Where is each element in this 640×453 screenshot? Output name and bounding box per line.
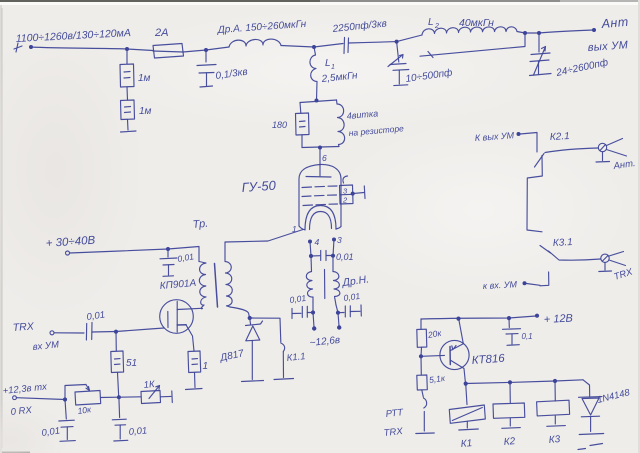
wire fuse to node B [183,50,206,52]
svg-text:3: 3 [337,235,342,245]
svg-text:1м: 1м [139,106,152,117]
capacitor C 0,01 across filament [309,251,354,263]
connector Ant [596,139,636,173]
switch PTT [383,390,434,439]
grid pin mark C [343,176,348,183]
capacitor C 0,01 bias mid [112,397,147,441]
transistor KT816 [440,319,506,384]
capacitor C 2250pF/3kV [331,17,387,53]
svg-text:Ант: Ант [600,15,629,31]
svg-text:К3.1: К3.1 [553,237,573,249]
node Q junction [507,316,511,320]
node H junction [318,146,322,150]
wire node B to choke [206,47,229,50]
wire to R1 [126,49,128,64]
node A junction [125,47,129,51]
wire HV to fuse [31,47,127,49]
rotor wire of C1 [420,33,525,58]
svg-text:0,01: 0,01 [336,252,354,262]
variable capacitor C2 24-2600pF [530,33,610,79]
wire to K2.1 [520,133,537,153]
relay coil K1 [449,384,485,450]
svg-text:1: 1 [331,64,335,71]
choke Dr.A anode [216,19,307,47]
drain lead [177,308,201,309]
+12V bus wire [421,316,536,319]
node D junction [395,40,399,44]
svg-text:К2.1: К2.1 [550,131,570,143]
source lead [177,324,186,326]
base bar [449,347,451,365]
svg-text:КТ816: КТ816 [471,353,505,367]
terminal +12V [535,314,539,318]
resistor R 1M upper [120,64,151,87]
relay coil K3 [537,381,570,446]
resistor R 1 source [186,351,209,390]
svg-text:К2: К2 [503,436,516,448]
tube grid dashes row3 [303,204,338,206]
MOSFET KP901A [116,300,202,351]
transformer primary winding [199,262,206,309]
wire bias to node N [17,398,66,400]
svg-text:К1: К1 [460,438,472,450]
node grid junction [351,192,355,196]
wire +30V to node J [70,249,169,253]
tube anode plate [306,166,331,177]
wire R20k to base node [420,347,423,356]
capacitor C 0,01 bias left [41,400,75,442]
wire node F to antenna output [539,30,593,33]
wire node J to transformer primary [168,247,199,262]
grid pin boxes 3 and 2 [340,185,354,205]
wire to anode pin 6 [319,148,321,167]
node R junction [464,382,468,386]
pin 4 node [308,240,312,244]
capacitor C 0,01 input [86,310,106,340]
terminal k vkh UM [523,281,527,285]
svg-text:2А: 2А [154,27,168,39]
wire junction A to fuse [127,49,153,51]
node E junction [523,31,527,35]
fixed contact bracket k vkh UM [540,272,549,286]
common wire K2.1 to K3.1 [527,156,542,232]
suppressor left lead [299,103,302,114]
svg-text:40мкГн: 40мкГн [459,17,494,29]
resistor R 1M lower [121,100,152,120]
svg-text:+ 12В: + 12В [544,312,574,326]
resistor R 5,1k [417,356,447,390]
inductor L2 [422,17,525,35]
node K junction [248,316,252,320]
transformer secondary winding [225,242,232,307]
filament left wire [310,242,312,272]
capacitor C 0,1 12V bypass [503,318,533,345]
svg-text:РТТ: РТТ [385,407,405,420]
inductor L1 [310,47,359,100]
ground [121,131,137,132]
svg-text:4: 4 [315,237,320,247]
node G junction [315,99,319,103]
wire grid to bypass bar [353,193,364,194]
resistor R 51 [111,332,137,373]
svg-text:к вх. УМ: к вх. УМ [483,279,518,291]
svg-text:L: L [325,58,331,69]
relay coil K2 [493,382,525,448]
relay contact K2.1 blade [535,154,545,168]
svg-text:К1.1: К1.1 [286,351,306,364]
gate bar [167,312,169,328]
wire C2250 to node D [349,42,397,43]
svg-text:ТRX: ТRX [383,426,404,439]
wire blade to antenna connector [545,148,598,153]
wire bus to R20k [420,319,422,329]
wire blade to TRX connector [549,251,601,260]
svg-text:1: 1 [203,361,209,372]
node HV+ terminal [14,43,22,52]
diode 1N4148 [579,380,632,435]
svg-text:0 RX: 0 RX [10,405,33,418]
svg-text:2: 2 [434,23,439,30]
svg-text:К3: К3 [548,434,561,446]
wire between resistors [126,87,129,100]
wire input to C0,01 [54,332,84,334]
transformer core [215,264,218,308]
wire base node to transistor [421,354,445,357]
terminal K vykh UM [517,132,521,136]
capacitor C 0,01 supply bypass [160,249,195,276]
terminal TRX input [50,331,54,335]
node J junction [166,247,170,251]
wire C to node L [92,331,116,334]
capacitor C 0,01 filament right [338,291,361,317]
resistor R 20k base [417,328,443,348]
svg-text:ТRX: ТRX [12,320,35,334]
node L junction [114,330,118,334]
capacitor C 0,1/3kV [197,50,248,87]
wire node E to node F [525,32,539,34]
svg-text:2: 2 [342,196,348,205]
wire pin1 to transformer secondary [226,230,304,243]
node B junction [204,48,208,52]
node C junction [312,45,316,49]
terminal fil right [337,325,341,329]
svg-text:180: 180 [272,120,287,130]
parasitic suppressor loop top wire [300,100,337,103]
tube GU-50 envelope [299,164,341,230]
channel bar [176,302,178,333]
node M junction [117,395,121,399]
relay contact K1.1 [252,318,307,380]
grid bypass bar [363,186,366,199]
terminal +30V [66,251,70,255]
svg-text:51: 51 [126,358,137,369]
connector TRX [599,252,635,283]
tube grid dashes row2 [302,195,337,197]
svg-text:6: 6 [322,153,327,163]
node P junction [456,317,460,321]
node S junction [508,380,512,384]
resistor R 180 [272,113,309,135]
svg-text:1м: 1м [138,73,151,84]
wire choke to node C [281,46,314,48]
svg-text:L: L [428,17,434,28]
wire R51 to node M [118,373,119,397]
wire node D to L2 [397,35,422,42]
svg-text:0,1: 0,1 [522,332,533,341]
fuse FU 2A [153,27,184,58]
potentiometer 10k [65,385,119,416]
wire to ground [127,120,130,131]
emitter with arrow [451,344,464,351]
relay contact K3.1 blade [540,246,551,254]
svg-text:Тр.: Тр. [192,218,209,231]
capacitor C 0,01 filament left [289,293,313,319]
small mark bottom right [578,444,603,450]
collector [451,360,466,383]
terminal bias [13,396,17,400]
node N junction [63,397,67,401]
suppressor bottom wire [302,147,339,148]
node F junction [537,31,541,35]
gate lead [116,328,164,332]
secondary bottom wire to node K [230,307,250,318]
collector bus wire [466,380,584,384]
suppressor left lower lead [301,135,303,148]
filament right wire [333,240,334,272]
tube cathode [305,206,336,231]
filament choke Dr.N [306,270,370,306]
wire node C to C2250 [314,44,343,48]
tube grid dashes row1 [302,186,337,188]
suppressor coil 4 turns [337,100,405,147]
zener D817 [218,318,263,382]
node fil left junction [311,310,315,314]
resistor 1K [119,379,172,404]
terminal fil left [312,326,316,330]
svg-text:10к: 10к [77,404,93,416]
variable capacitor C1 10-500pF [388,42,454,86]
pin 3 node [332,238,336,242]
node base junction [419,354,423,358]
node fil right junction [336,311,340,315]
wire terminal to bracket [527,284,541,286]
svg-text:ГУ-50: ГУ-50 [241,178,277,195]
node T junction [553,379,557,383]
svg-text:0,01: 0,01 [128,425,147,438]
